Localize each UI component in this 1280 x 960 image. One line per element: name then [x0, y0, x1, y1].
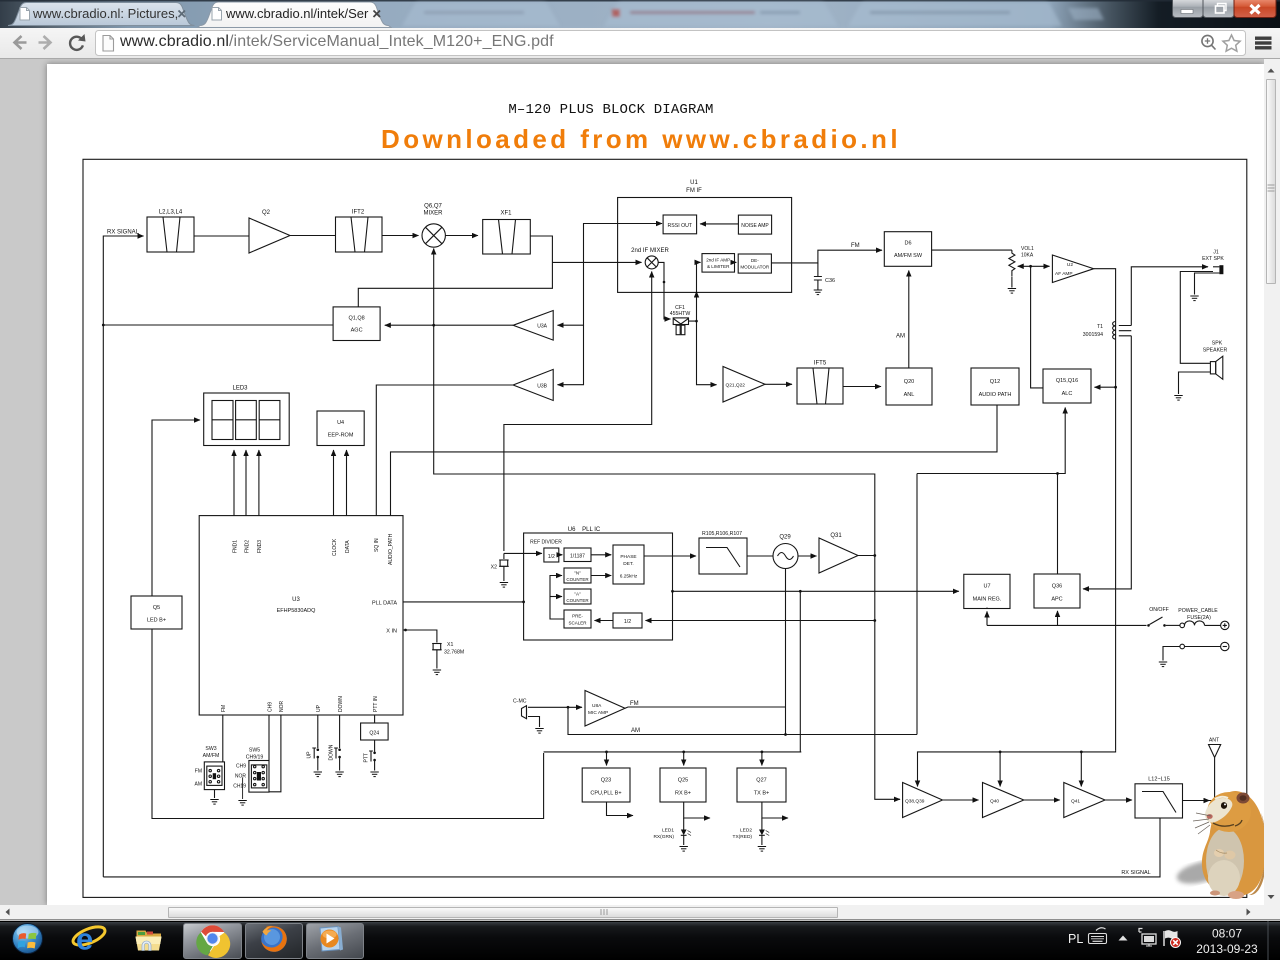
svg-text:LED2: LED2 — [740, 828, 752, 834]
svg-text:DATA: DATA — [345, 540, 351, 553]
IC U6 PLL IC box — [524, 527, 673, 640]
window close button — [1234, 0, 1276, 18]
svg-text:LED3: LED3 — [232, 386, 248, 392]
wire AGC out to RX line — [103, 324, 333, 326]
inactive tab www.cbradio.nl: Pictures — [8, 3, 195, 26]
svg-text:U3: U3 — [292, 597, 300, 603]
svg-text:R105,R106,R107: R105,R106,R107 — [702, 531, 742, 537]
filter IFT2 — [336, 210, 383, 253]
wire AM riser Q20 to D6 — [908, 271, 910, 369]
wire speaker low side to ground — [1179, 372, 1211, 394]
resistor R105,R106,R107 loop filter — [699, 531, 747, 574]
svg-text:FND2: FND2 — [244, 540, 250, 553]
firefox icon — [261, 926, 287, 952]
wire mic to amp — [528, 706, 582, 708]
ground — [680, 847, 688, 852]
svg-text:PL: PL — [1068, 932, 1083, 946]
wire RX signal return — [103, 818, 1160, 877]
svg-text:IFT5: IFT5 — [814, 361, 827, 367]
amplifier Q2 — [249, 210, 290, 253]
svg-text:SW3: SW3 — [205, 746, 216, 752]
svg-text:C-MC: C-MC — [513, 699, 527, 705]
wire PLL DATA — [403, 601, 524, 603]
wire mixer2 down to reference — [651, 272, 653, 277]
junction — [432, 324, 435, 327]
block Q25 RX B+ — [660, 768, 706, 802]
amplifier U8A MIC AMP — [585, 691, 625, 727]
block Q23 CPU,PLL B+ — [582, 768, 630, 802]
svg-text:J1: J1 — [1213, 250, 1219, 256]
svg-text:D6: D6 — [904, 241, 911, 247]
svg-text:UP: UP — [307, 751, 313, 759]
svg-text:AGC: AGC — [351, 328, 363, 334]
block A COUNTER — [564, 589, 591, 604]
wire — [735, 261, 737, 263]
wire — [290, 235, 336, 237]
ground — [210, 800, 218, 805]
capacitor C36 — [814, 263, 835, 290]
svg-text:SCALER: SCALER — [568, 621, 587, 626]
terminal minus — [1221, 642, 1229, 650]
amplifier Q21,Q22 — [723, 367, 765, 403]
ground — [535, 729, 543, 734]
wire Q31 out to net1 — [858, 555, 875, 557]
hamster mascot image — [1174, 791, 1266, 899]
horizontal scrollbar — [0, 905, 1280, 919]
mixer 2nd IF MIXER — [631, 248, 669, 269]
svg-text:1/2: 1/2 — [624, 619, 631, 625]
wire AM modulation — [568, 707, 917, 734]
wire supply rail U7 Q36 to switch — [986, 608, 988, 609]
svg-text:AF AMP: AF AMP — [1055, 271, 1073, 277]
wire T1 to J1 jack — [1131, 267, 1208, 326]
svg-text:L2,L3,L4: L2,L3,L4 — [159, 210, 183, 216]
svg-text:Q40: Q40 — [990, 799, 999, 805]
ground — [238, 801, 246, 806]
wire riser to Q25 — [683, 752, 685, 766]
svg-text:www.cbradio.nl: Pictures,: www.cbradio.nl: Pictures, — [32, 6, 178, 21]
svg-text:AUDIO_PATH: AUDIO_PATH — [388, 533, 394, 565]
svg-text:U8A: U8A — [592, 703, 602, 709]
svg-text:U7: U7 — [983, 584, 990, 590]
svg-text:SPK: SPK — [1212, 341, 1223, 347]
wire to antenna — [1183, 800, 1210, 802]
block RSSI OUT — [663, 215, 697, 234]
url text — [120, 33, 554, 51]
crystal X2 — [491, 553, 509, 581]
svg-text:UP: UP — [316, 704, 322, 712]
wire — [747, 555, 773, 557]
wire audio path line to U3 — [391, 405, 998, 516]
filter XF1 — [483, 211, 531, 255]
ground — [335, 772, 343, 777]
svg-text:PRE-: PRE- — [572, 614, 583, 619]
wire CF1 out up to IF amp and down to Q21 — [689, 262, 701, 321]
svg-text:U3A: U3A — [537, 324, 547, 330]
forward button — [39, 36, 51, 49]
ground — [814, 290, 822, 295]
svg-text:LED1: LED1 — [662, 828, 674, 834]
svg-text:MODULATOR: MODULATOR — [740, 265, 770, 270]
svg-text:MAIN REG.: MAIN REG. — [973, 597, 1002, 603]
wire U2 out down right side — [1094, 269, 1116, 751]
ground — [433, 670, 441, 675]
svg-text:EFHP5830ADQ: EFHP5830ADQ — [277, 608, 317, 614]
wire NOISE AMP to RSSI OUT — [700, 223, 738, 225]
switch SW5 CH9/19 — [233, 715, 281, 799]
svg-text:ON/OFF: ON/OFF — [1149, 607, 1169, 613]
svg-text:MIXER: MIXER — [423, 211, 443, 217]
wire — [559, 554, 563, 556]
speaker SPK — [1203, 341, 1228, 380]
svg-text:FUSE(2A): FUSE(2A) — [1187, 615, 1211, 621]
svg-text:IFT2: IFT2 — [352, 210, 365, 216]
tray up arrow — [1119, 936, 1128, 941]
svg-text:XF1: XF1 — [500, 211, 512, 217]
wire — [382, 235, 419, 237]
back button — [15, 36, 27, 49]
svg-text:Q25: Q25 — [678, 778, 688, 784]
wire U3B out to SQ IN — [376, 385, 513, 516]
svg-text:www.cbradio.nl/intek/Ser: www.cbradio.nl/intek/Ser — [225, 6, 369, 21]
wire Q25 output — [684, 802, 710, 818]
oscillator Q29 — [773, 535, 798, 569]
wire T1 lower secondary to Q36 — [1083, 336, 1131, 589]
wire net2 AM to ALC — [917, 408, 1065, 474]
svg-text:T1: T1 — [1097, 324, 1103, 330]
wire wiper to U2 — [1022, 265, 1050, 267]
microphone C-MC — [513, 699, 540, 728]
svg-text:REF DIVIDER: REF DIVIDER — [530, 540, 562, 546]
wire jack switch contact to speaker — [1180, 272, 1213, 364]
ground — [1159, 662, 1167, 667]
svg-text:CPU,PLL B+: CPU,PLL B+ — [590, 791, 621, 797]
block NOISE AMP — [738, 215, 771, 234]
display LED3 — [204, 386, 290, 446]
internet explorer icon — [71, 922, 108, 957]
wire demod to D6 with FM label — [771, 250, 882, 263]
svg-text:VOL1: VOL1 — [1021, 246, 1034, 252]
filter IFT5 — [797, 361, 843, 405]
IC U3 EFHP5830ADQ — [199, 516, 403, 715]
svg-text:FM: FM — [630, 701, 639, 707]
wire RSSI line to U3A U3B — [661, 223, 662, 225]
ground — [758, 847, 766, 852]
svg-text:RX SIGNAL: RX SIGNAL — [1121, 870, 1150, 876]
svg-text:EEP-ROM: EEP-ROM — [328, 433, 354, 439]
wire — [798, 555, 817, 557]
svg-text:POWER_CABLE: POWER_CABLE — [1178, 608, 1218, 614]
ground — [1174, 396, 1182, 401]
browser tab strip — [0, 0, 1280, 28]
svg-text:Q21,Q22: Q21,Q22 — [726, 383, 746, 389]
wire U6 to U7 MAIN REG — [673, 590, 959, 592]
svg-text:RX(GRN): RX(GRN) — [653, 834, 674, 840]
wire B+ rail right — [918, 751, 1116, 787]
block DE-MODULATOR — [738, 254, 771, 273]
svg-text:Downloaded from www.cbradio.nl: Downloaded from www.cbradio.nl — [381, 124, 901, 154]
amplifier Q38,Q39 — [903, 783, 943, 818]
svg-text:08:07: 08:07 — [1212, 927, 1242, 941]
window bottom edge — [0, 919, 1280, 921]
crystal X1 32.768M — [403, 629, 464, 669]
svg-text:AM/FM: AM/FM — [203, 753, 220, 759]
switch PTT — [363, 751, 376, 771]
svg-text:SQ IN: SQ IN — [374, 538, 380, 552]
svg-text:NOR: NOR — [279, 701, 285, 713]
led LED1 RX(GRN) — [653, 818, 691, 845]
svg-text:Q24: Q24 — [369, 731, 379, 737]
svg-text:MIC AMP: MIC AMP — [588, 710, 608, 716]
amplifier U3A — [513, 311, 553, 341]
svg-text:Q20: Q20 — [904, 379, 914, 385]
svg-text:PLL DATA: PLL DATA — [372, 601, 397, 607]
svg-text:"N": "N" — [574, 571, 581, 576]
block 2nd IF AMP and LIMITER — [702, 254, 735, 273]
svg-text:DOWN: DOWN — [338, 696, 344, 712]
switch ON/OFF — [1147, 607, 1180, 627]
filter L2,L3,L4 — [147, 210, 194, 253]
wire U3A out to AGC — [385, 324, 513, 326]
wire Q23 output — [607, 802, 634, 816]
svg-text:TX B+: TX B+ — [754, 791, 769, 797]
ground — [1008, 289, 1016, 294]
svg-text:X2: X2 — [491, 565, 497, 571]
wire B+ rail left — [544, 751, 802, 753]
mixer Q6,Q7 — [422, 204, 445, 248]
wire CLOCK DATA risers — [333, 450, 335, 516]
wire Q27 output — [762, 802, 788, 818]
svg-text:RX B+: RX B+ — [675, 791, 691, 797]
wire RX input and left loop vertical — [103, 236, 141, 877]
wire to ALC left input — [1031, 266, 1043, 388]
svg-text:L12~L15: L12~L15 — [1148, 777, 1170, 783]
block Q1,Q8 AGC — [333, 307, 380, 341]
svg-text:X IN: X IN — [386, 629, 397, 635]
svg-text:"A": "A" — [574, 592, 581, 597]
switch DOWN — [328, 715, 341, 771]
svg-text:C36: C36 — [825, 278, 835, 284]
svg-text:AUDIO PATH: AUDIO PATH — [979, 392, 1012, 398]
svg-text:Q41: Q41 — [1071, 799, 1080, 805]
svg-text:X1: X1 — [447, 642, 453, 648]
start orb — [13, 924, 43, 954]
svg-text:ALC: ALC — [1062, 391, 1073, 397]
wire FND risers — [233, 450, 235, 516]
amplifier Q40 — [983, 783, 1024, 818]
wire — [1105, 799, 1132, 801]
svg-text:FND3: FND3 — [257, 540, 263, 553]
svg-text:32.768M: 32.768M — [444, 650, 464, 656]
svg-text:COUNTER: COUNTER — [566, 598, 589, 603]
wire — [445, 235, 478, 237]
show desktop — [1267, 921, 1269, 960]
block Q15,Q16 ALC — [1043, 369, 1091, 403]
wire D6 out — [932, 249, 1012, 251]
svg-text:PTT: PTT — [363, 753, 369, 762]
svg-text:U4: U4 — [337, 420, 344, 426]
svg-text:DET.: DET. — [623, 561, 633, 567]
wire mixer2 out to CF1 — [658, 262, 670, 319]
amplifier Q41 — [1064, 783, 1105, 818]
svg-text:U1: U1 — [690, 180, 698, 186]
svg-text:10KA: 10KA — [1021, 253, 1034, 259]
wire reference into divider — [504, 552, 542, 554]
svg-text:Q12: Q12 — [990, 379, 1000, 385]
transformer T1 3001594 — [1083, 321, 1132, 339]
filter L12~L15 — [1135, 777, 1183, 819]
svg-text:AM: AM — [896, 334, 905, 340]
wire Q29 modulation line — [785, 569, 787, 735]
svg-text:TX(RED): TX(RED) — [733, 834, 753, 840]
connector J1 EXT SPK — [1202, 250, 1224, 275]
svg-text:1/2: 1/2 — [548, 554, 555, 560]
wire prescaler to counters — [550, 576, 564, 620]
wire riser to Q41 — [1080, 752, 1082, 787]
svg-text:CH19: CH19 — [233, 784, 246, 790]
svg-text:SPEAKER: SPEAKER — [1203, 348, 1228, 354]
svg-text:& LIMITER: & LIMITER — [707, 264, 730, 269]
block U7 MAIN REG — [964, 574, 1010, 608]
wire jack sleeve to ground — [1195, 273, 1220, 295]
block PHASE DET 6.25kHz — [613, 545, 644, 584]
svg-text:AM: AM — [631, 728, 640, 734]
svg-text:M–120 PLUS BLOCK DIAGRAM: M–120 PLUS BLOCK DIAGRAM — [508, 102, 713, 118]
svg-text:RSSI OUT: RSSI OUT — [668, 223, 693, 229]
IC U1 FM IF box — [618, 180, 792, 292]
block 1/1187 — [564, 548, 591, 562]
antenna ANT — [1209, 738, 1221, 765]
menu button — [1255, 37, 1272, 50]
svg-text:Q36: Q36 — [1052, 584, 1062, 590]
wire Q36 top riser — [1057, 474, 1059, 575]
svg-text:RX SIGNAL: RX SIGNAL — [107, 230, 140, 236]
led LED2 TX(RED) — [733, 818, 770, 845]
svg-text:FM: FM — [195, 769, 202, 775]
svg-text:U6 PLL IC: U6 PLL IC — [568, 527, 601, 533]
svg-text:455HTW: 455HTW — [670, 311, 691, 317]
amplifier U3B — [513, 369, 553, 400]
svg-text:AM: AM — [195, 782, 203, 788]
svg-text:U2: U2 — [1067, 262, 1073, 268]
svg-text:APC: APC — [1051, 597, 1062, 603]
svg-text:Q31: Q31 — [830, 533, 842, 539]
svg-text:FM: FM — [851, 243, 860, 249]
svg-text:NOISE AMP: NOISE AMP — [741, 223, 769, 229]
svg-text:Q6,Q7: Q6,Q7 — [424, 204, 442, 210]
ground — [1190, 296, 1198, 301]
wire to 2nd IF mixer — [552, 261, 641, 263]
IC U4 EEP-ROM — [317, 411, 364, 446]
svg-text:COUNTER: COUNTER — [566, 577, 589, 582]
svg-text:U3B: U3B — [537, 384, 547, 390]
wire FM modulation — [625, 707, 786, 708]
ground — [370, 772, 378, 777]
ground — [500, 583, 508, 588]
svg-text:e: e — [76, 922, 93, 957]
page icon — [103, 36, 114, 52]
omnibox — [96, 31, 1246, 56]
block Q27 TX B+ — [737, 768, 786, 802]
wire — [765, 383, 792, 385]
explorer folder icon — [136, 931, 162, 951]
block Q36 APC — [1034, 574, 1080, 608]
svg-text:LED B+: LED B+ — [147, 618, 166, 624]
svg-text:6.25kHz: 6.25kHz — [620, 574, 638, 580]
tray keyboard icon — [1089, 928, 1107, 944]
svg-text:ANT: ANT — [1209, 738, 1220, 744]
svg-text:SW5: SW5 — [249, 748, 260, 754]
wire minus to ground — [1185, 646, 1221, 648]
svg-text:2nd IF AMP: 2nd IF AMP — [706, 258, 730, 263]
svg-text:FM: FM — [221, 705, 227, 712]
switch UP — [307, 715, 320, 771]
wire B+ feed loop to Q5 — [152, 629, 544, 819]
wire — [943, 799, 979, 801]
wire XF1 out to AGC top — [358, 236, 552, 307]
block 1/2 ref — [544, 548, 559, 562]
svg-text:DOWN: DOWN — [328, 744, 334, 760]
block Q5 LED B+ — [131, 596, 182, 629]
svg-text:FND1: FND1 — [232, 540, 238, 553]
ground — [314, 772, 322, 777]
wire net1 VCO distribution — [433, 249, 435, 252]
svg-text:Q5: Q5 — [153, 605, 160, 611]
reload button — [70, 34, 85, 50]
block Q12 AUDIO PATH — [971, 368, 1019, 405]
block N COUNTER — [564, 568, 591, 583]
block D6 AM/FM SW — [884, 232, 931, 267]
svg-text:AM/FM SW: AM/FM SW — [894, 253, 923, 259]
wire phase det out to loop filter — [644, 555, 696, 557]
terminal plus — [1221, 621, 1229, 629]
svg-text:3001594: 3001594 — [1083, 332, 1103, 338]
svg-text:CH9: CH9 — [236, 764, 246, 770]
taskbar — [0, 921, 1280, 960]
wire — [194, 235, 249, 237]
svg-text:PTT IN: PTT IN — [373, 696, 379, 712]
svg-text:CH9/19: CH9/19 — [246, 755, 264, 761]
wire — [591, 575, 611, 577]
svg-text:DE-: DE- — [751, 258, 759, 263]
svg-text:PHASE: PHASE — [620, 554, 636, 560]
wire riser to Q27 — [761, 752, 763, 766]
svg-text:Q1,Q8: Q1,Q8 — [348, 316, 364, 322]
media player icon — [320, 927, 343, 952]
svg-text:FM IF: FM IF — [686, 188, 702, 194]
wire riser to Q40 — [999, 752, 1001, 787]
wire U2 line into ALC right input — [1095, 386, 1116, 388]
svg-text:Q29: Q29 — [779, 535, 791, 541]
ceramic filter CF1 455HTW — [670, 305, 691, 335]
window minimize button — [1173, 0, 1204, 18]
svg-text:2nd IF MIXER: 2nd IF MIXER — [631, 248, 669, 254]
amplifier U2 AF AMP — [1052, 255, 1093, 283]
bookmark star icon — [1223, 35, 1240, 51]
window restore button — [1203, 0, 1234, 18]
tray network icon — [1139, 929, 1156, 947]
fuse FUSE(2A) — [1178, 608, 1220, 628]
wire — [591, 554, 611, 556]
wire — [1024, 799, 1060, 801]
transistor Q24 — [361, 715, 389, 752]
chrome icon — [196, 925, 230, 958]
diagram outer border frame — [83, 159, 1247, 897]
block Q20 ANL — [886, 368, 932, 405]
wire — [843, 386, 881, 388]
amplifier Q31 — [819, 533, 858, 573]
svg-text:Q15,Q16: Q15,Q16 — [1056, 378, 1078, 384]
